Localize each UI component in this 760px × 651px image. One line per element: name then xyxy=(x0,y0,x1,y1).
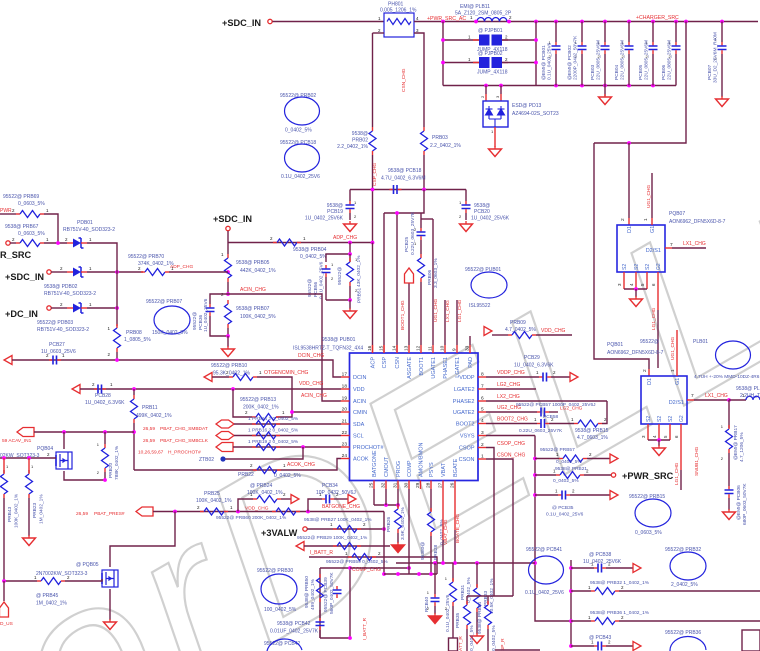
svg-text:95522@ PRB70: 95522@ PRB70 xyxy=(128,254,164,260)
label +PWR_SRC_AC xyxy=(427,16,466,22)
svg-text:LX2_CHG: LX2_CHG xyxy=(497,394,520,400)
svg-text:PRB11: PRB11 xyxy=(142,405,158,411)
resistor PRB59 xyxy=(345,551,381,561)
junction PRB11 xyxy=(132,430,136,434)
capacitor PCB43 xyxy=(591,640,611,651)
resistor PRB67 xyxy=(10,237,67,247)
resistor PRB17 xyxy=(726,425,733,486)
wire jumper right rail xyxy=(535,22,537,86)
label VBAT_CHG rot xyxy=(443,519,449,545)
testpoint ZTB02 xyxy=(199,456,226,463)
svg-text:VDD_CHG: VDD_CHG xyxy=(245,506,269,512)
wire bottom mid xyxy=(495,649,540,651)
wire ACIN div xyxy=(227,243,229,255)
ground PQB07 xyxy=(630,296,643,307)
svg-text:VDD_CHG: VDD_CHG xyxy=(541,328,566,334)
label PCB42 xyxy=(270,621,319,635)
wire divider bottom xyxy=(326,299,350,301)
svg-text:LG1_CHG: LG1_CHG xyxy=(457,299,463,322)
svg-text:PQB07: PQB07 xyxy=(669,211,685,217)
svg-text:AON6962_DFN5X6D-8-7: AON6962_DFN5X6D-8-7 xyxy=(607,350,664,356)
junction dots top rail xyxy=(441,20,724,24)
wire PQB07 pin7 xyxy=(665,242,706,248)
svg-text:VBAT_CHG: VBAT_CHG xyxy=(443,519,449,545)
svg-text:0_0603_5%: 0_0603_5% xyxy=(18,231,45,237)
label UG1_CHG 2 xyxy=(670,337,676,360)
wire H190 xyxy=(350,189,466,191)
ESD diode PD13 xyxy=(483,101,508,127)
svg-text:UG1_CHG: UG1_CHG xyxy=(646,185,652,208)
label PBAT_PRES xyxy=(76,511,125,517)
node SDC pin3 xyxy=(47,270,51,274)
svg-text:PCB34: PCB34 xyxy=(322,483,338,489)
resistor PRB22 xyxy=(250,463,286,474)
red texts SMB rows xyxy=(138,426,209,456)
label LG1_CHG 1 xyxy=(651,307,657,330)
svg-text:PRB03: PRB03 xyxy=(432,135,448,141)
label CSN_R rot xyxy=(458,636,464,651)
label EMI PLB11 xyxy=(455,4,512,17)
label LX1 rot xyxy=(445,300,451,322)
IC pin numbers xyxy=(342,345,484,488)
svg-text:ASGATE: ASGATE xyxy=(407,357,413,379)
resistor PRB33 xyxy=(474,563,481,634)
svg-text:PRB08: PRB08 xyxy=(126,330,142,336)
svg-text:95522@ PCB39: 95522@ PCB39 xyxy=(323,577,329,612)
label DCIN_CHG xyxy=(298,353,324,359)
svg-text:499_0402_1%: 499_0402_1% xyxy=(310,578,316,610)
svg-text:150K_0402_5%: 150K_0402_5% xyxy=(152,330,188,336)
svg-text:0.22U_0603_25V7K: 0.22U_0603_25V7K xyxy=(410,211,416,255)
wire gate stubs xyxy=(4,458,34,470)
svg-text:@ PJPB01: @ PJPB01 xyxy=(478,28,503,34)
svg-text:PCB03: PCB03 xyxy=(590,64,596,80)
resistor PH801 sense xyxy=(384,13,414,37)
capacitor PCB03 xyxy=(590,22,610,86)
label PRB26 xyxy=(386,506,406,540)
svg-text:OTGENCMIN_CHG: OTGENCMIN_CHG xyxy=(264,370,309,376)
svg-text:LX1_CHG: LX1_CHG xyxy=(445,300,451,322)
wire DCIN xyxy=(12,360,341,377)
svg-text:PCB07: PCB07 xyxy=(707,64,713,80)
junction VSYS col xyxy=(533,457,537,565)
svg-text:S2: S2 xyxy=(657,416,663,422)
net arrow PRB10 xyxy=(204,373,212,382)
junction diode3 xyxy=(115,306,119,310)
resistor PRB21 xyxy=(553,469,589,479)
svg-text:95522@ PRB29 100K_0402_1: 95522@ PRB29 100K_0402_1% xyxy=(297,535,368,541)
capacitor PCB42 xyxy=(316,610,325,638)
svg-text:200K_0402_1%: 200K_0402_1% xyxy=(243,405,279,411)
svg-text:CMOUT: CMOUT xyxy=(384,456,390,477)
node 3VALW xyxy=(303,527,307,531)
svg-text:9538@ PRB34: 9538@ PRB34 xyxy=(477,602,483,634)
box bottom right xyxy=(742,630,760,651)
label LX2_CHG xyxy=(497,394,520,400)
wire CSP column 2 xyxy=(372,155,374,242)
capacitor PCB06 snub xyxy=(725,486,734,510)
wire PRB21 out xyxy=(584,474,611,476)
wire PH801 pin2 xyxy=(373,32,385,34)
capacitor PCB06 xyxy=(661,22,681,86)
svg-text:100_0402_5%: 100_0402_5% xyxy=(264,607,297,613)
svg-text:1: 1 xyxy=(670,369,676,372)
junction div xyxy=(348,252,352,256)
svg-text:95522@ PRB13: 95522@ PRB13 xyxy=(240,397,276,403)
wire PDB02 out xyxy=(87,271,143,273)
svg-text:0_0402_5%: 0_0402_5% xyxy=(553,478,579,484)
svg-text:@ PCB43: @ PCB43 xyxy=(589,635,612,641)
label PJPB02 xyxy=(478,51,503,57)
ground PRB26 xyxy=(392,542,405,553)
label BGATE_CHG rot xyxy=(455,514,461,543)
svg-text:PCB06: PCB06 xyxy=(661,64,667,80)
svg-text:BATGONE: BATGONE xyxy=(372,450,378,477)
svg-text:95522@ PCB41: 95522@ PCB41 xyxy=(526,547,562,553)
svg-text:95522@: 95522@ xyxy=(640,339,659,345)
net arrow VDD_CHG row xyxy=(484,327,492,336)
label PRB05 xyxy=(236,260,276,274)
circle PRB30 xyxy=(257,568,297,613)
circle PRB36 c xyxy=(665,630,706,651)
svg-text:1U_0402_6.3V6K: 1U_0402_6.3V6K xyxy=(514,363,554,369)
svg-text:@EMI@ PCB02: @EMI@ PCB02 xyxy=(567,45,573,80)
label PRB14 xyxy=(248,416,299,422)
junction source xyxy=(103,478,107,482)
wire V384 down xyxy=(383,512,385,575)
junction CMIN xyxy=(290,410,294,414)
label PRB07 100K xyxy=(236,306,276,320)
svg-text:1U_0603_25V6: 1U_0603_25V6 xyxy=(41,349,76,355)
label ACAV xyxy=(2,438,32,444)
circle PCB41 xyxy=(525,547,564,596)
svg-text:9538@ PCB42: 9538@ PCB42 xyxy=(277,621,311,627)
svg-text:4.7U_0402_6.3V6M: 4.7U_0402_6.3V6M xyxy=(381,176,425,182)
resistor PRB14 xyxy=(252,421,280,428)
label ESD PD13 xyxy=(512,103,559,117)
label PCB34 xyxy=(316,483,356,496)
svg-text:PHASE2: PHASE2 xyxy=(453,399,475,405)
wire PRB32 row xyxy=(571,590,591,592)
svg-text:G1: G1 xyxy=(675,378,681,385)
junction H563 xyxy=(433,561,479,565)
net arrow PCB28 xyxy=(72,385,80,394)
wire PAD col xyxy=(469,336,471,345)
wire PCB43 row xyxy=(571,645,594,647)
svg-text:+PWR_SRC: +PWR_SRC xyxy=(622,471,674,481)
wire PDB03 out xyxy=(87,307,117,309)
wire CMIN2 xyxy=(292,411,341,413)
wire COMP up xyxy=(350,566,411,570)
wire PQB07 source join xyxy=(624,288,647,290)
svg-text:PWR: PWR xyxy=(0,208,12,214)
wire PRB36 row xyxy=(571,620,591,622)
capacitor PCB35 xyxy=(555,489,575,500)
wire PQB07 G2 down xyxy=(657,282,659,368)
label PRB31 xyxy=(445,576,472,611)
svg-text:PRB51: PRB51 xyxy=(357,287,363,303)
label UG2_CHG xyxy=(497,405,521,411)
svg-text:VDDP_CHG: VDDP_CHG xyxy=(497,370,525,376)
wire PRB59 row xyxy=(309,557,437,563)
svg-text:9538@ PRB27 100K_0402_1%: 9538@ PRB27 100K_0402_1% xyxy=(304,517,372,523)
junction 397-213 xyxy=(395,211,399,215)
svg-text:CSOP: CSOP xyxy=(459,446,475,452)
svg-text:PSYS: PSYS xyxy=(429,462,435,477)
bidir arrow SDA xyxy=(216,420,234,428)
ground PRB23 xyxy=(23,535,36,546)
label CSON_CHG xyxy=(497,453,525,459)
svg-text:2200P_0402_50V7K: 2200P_0402_50V7K xyxy=(573,35,579,80)
svg-text:100K_0402_1%: 100K_0402_1% xyxy=(196,498,232,504)
IC pin names xyxy=(353,357,475,477)
svg-text:7: 7 xyxy=(670,242,673,248)
svg-text:59 ACAV_IN1: 59 ACAV_IN1 xyxy=(2,438,32,444)
label PDB01 xyxy=(63,220,115,233)
svg-text:2_0402_5%: 2_0402_5% xyxy=(671,582,698,588)
label PCB43 xyxy=(589,635,612,641)
ground PQB05 xyxy=(104,619,117,630)
wire ACOK xyxy=(134,459,341,471)
svg-text:ADP_CHG: ADP_CHG xyxy=(333,235,357,241)
svg-text:G2: G2 xyxy=(656,263,662,270)
svg-text:0.1U_0402_25V6: 0.1U_0402_25V6 xyxy=(547,42,553,80)
wire PRB21 row xyxy=(535,474,556,476)
label PRB28 xyxy=(420,519,445,560)
junction dots bottom rail xyxy=(484,84,655,88)
wire CSN column xyxy=(414,33,424,127)
wire VBAT col xyxy=(442,489,444,563)
svg-text:9538@ PRB04: 9538@ PRB04 xyxy=(293,247,327,253)
label PCB27 xyxy=(41,342,76,355)
svg-text:BOOT1: BOOT1 xyxy=(419,357,425,376)
net arrow PRB57 xyxy=(610,454,618,463)
label PRB04 xyxy=(293,247,327,260)
wire PRB45 to gate xyxy=(65,579,102,581)
net arrow BATGONE xyxy=(348,495,356,504)
wire PH801 pin4 rail xyxy=(414,21,758,23)
svg-text:95380@: 95380@ xyxy=(420,542,426,560)
transistor PQB04 xyxy=(56,452,72,469)
svg-text:S2: S2 xyxy=(646,416,652,422)
label PRB23 xyxy=(32,494,45,524)
svg-text:S2: S2 xyxy=(622,264,628,270)
svg-text:9538@ PRB05: 9538@ PRB05 xyxy=(236,260,270,266)
junction H143 xyxy=(627,141,631,145)
wire BOOT1 col2 xyxy=(420,240,422,254)
label IBATT rot xyxy=(362,617,368,640)
svg-text:@ PRB24: @ PRB24 xyxy=(250,483,273,489)
wire BGATE col xyxy=(454,489,456,563)
ground PRB33 xyxy=(471,633,484,644)
svg-text:+SDC_IN: +SDC_IN xyxy=(222,18,261,28)
resistor PRB34 xyxy=(485,596,492,651)
IC pin stubs xyxy=(341,345,486,489)
svg-text:VSYS: VSYS xyxy=(460,434,475,440)
junctions H190 xyxy=(371,188,426,192)
svg-text:95522@ PRB69: 95522@ PRB69 xyxy=(3,194,39,200)
svg-text:@ PCB38: @ PCB38 xyxy=(589,552,612,558)
label PRB50 xyxy=(304,576,316,610)
wire CSP pin col xyxy=(383,213,385,353)
resistor PRB09 xyxy=(508,332,572,339)
jumper PJPB02 xyxy=(443,57,536,68)
resistor PRB32 xyxy=(588,585,624,595)
svg-text:PAD: PAD xyxy=(468,357,474,368)
svg-text:442K_0402_1%: 442K_0402_1% xyxy=(240,268,276,274)
junction PQB05 gate xyxy=(2,579,6,583)
wire COMP col xyxy=(408,489,410,574)
svg-text:PRB02: PRB02 xyxy=(352,138,368,144)
svg-text:2.2_0402_1%: 2.2_0402_1% xyxy=(337,144,368,150)
svg-text:PCB20: PCB20 xyxy=(474,209,490,215)
svg-text:I_BATT_R: I_BATT_R xyxy=(362,617,368,640)
junction dots jumper xyxy=(441,38,538,64)
label PCB39 xyxy=(323,572,335,614)
svg-text:ADP_CHG: ADP_CHG xyxy=(170,264,193,270)
wire CMIN xyxy=(257,377,292,417)
svg-text:499K_0402_1%: 499K_0402_1% xyxy=(136,413,172,419)
svg-text:560P_0402_50V7K: 560P_0402_50V7K xyxy=(329,572,335,614)
wire ESD pin3 xyxy=(500,86,502,102)
capacitor PCB02 xyxy=(567,22,587,86)
wire PDB01 out xyxy=(87,243,117,268)
svg-text:PBAT_PRES#: PBAT_PRES# xyxy=(94,511,125,517)
svg-text:AMON/BMON: AMON/BMON xyxy=(419,442,425,477)
wire VSYS col xyxy=(535,436,571,622)
resistor PRB25 xyxy=(197,505,233,515)
svg-text:BGATE: BGATE xyxy=(453,458,459,477)
svg-text:CSN: CSN xyxy=(395,357,401,369)
wire LGATE1 col xyxy=(456,300,458,345)
svg-text:95522@ PRB60 200K_0402_: 95522@ PRB60 200K_0402_1% xyxy=(216,515,287,521)
svg-text:AON6962_DFN5X6D-8-7: AON6962_DFN5X6D-8-7 xyxy=(669,219,726,225)
svg-text:PCB28: PCB28 xyxy=(95,393,111,399)
IC PUB01 ISL9538 xyxy=(350,353,479,481)
wire ZTB02 xyxy=(226,447,304,459)
svg-text:@EMI@ PCB06: @EMI@ PCB06 xyxy=(736,485,742,520)
ground PCB07 xyxy=(716,96,729,107)
net arrow PRB24 xyxy=(291,495,299,504)
svg-text:LG2_CHG: LG2_CHG xyxy=(497,382,520,388)
svg-text:1U_0402_25V6: 1U_0402_25V6 xyxy=(203,298,209,332)
svg-text:9538@ PRB07: 9538@ PRB07 xyxy=(236,306,270,312)
label +CHARGER_SRC xyxy=(636,15,679,21)
label PRB27 xyxy=(304,517,372,523)
wire H219 xyxy=(421,218,433,220)
label PCB25 xyxy=(404,211,416,255)
resistor PRB70 xyxy=(138,266,228,276)
svg-text:PROG: PROG xyxy=(396,461,402,477)
label PRB36 r xyxy=(590,610,650,616)
label PCB06 snub xyxy=(736,483,748,525)
junction ACIN xyxy=(226,292,230,296)
capacitor PCB27 xyxy=(46,353,65,365)
svg-text:95522@ PRB02: 95522@ PRB02 xyxy=(280,93,316,99)
wire PQB05 gate xyxy=(4,580,37,582)
svg-text:CSP_CHG: CSP_CHG xyxy=(372,163,378,186)
label PRB03 xyxy=(430,135,461,149)
resistor PRB11 xyxy=(131,389,138,470)
label PRB15 boot xyxy=(519,428,609,441)
svg-text:9538@ PRB36 1_0402_1%: 9538@ PRB36 1_0402_1% xyxy=(590,610,650,616)
resistor PRB57 xyxy=(556,452,592,462)
bidir arrow SCL xyxy=(216,432,234,440)
capacitor PCB36 xyxy=(206,294,229,336)
svg-text:D2/S1: D2/S1 xyxy=(646,248,661,254)
wire ACIN gnd xyxy=(227,336,229,347)
svg-text:ISL95522: ISL95522 xyxy=(469,303,491,309)
wire PCB34 arrow xyxy=(334,498,348,500)
label PRB16 xyxy=(248,428,299,434)
pin numbers PH801 xyxy=(378,16,419,33)
ground PCB19 xyxy=(344,221,357,232)
svg-text:0_0402_5%: 0_0402_5% xyxy=(556,459,582,465)
net arrow up left xyxy=(0,602,9,617)
svg-text:1U_0402_25V6K: 1U_0402_25V6K xyxy=(583,559,622,565)
svg-text:SCL: SCL xyxy=(353,434,364,440)
svg-text:ACOK: ACOK xyxy=(353,457,369,463)
svg-text:+CHARGER_SRC: +CHARGER_SRC xyxy=(636,15,679,21)
svg-text:0.1U_0402_25V6: 0.1U_0402_25V6 xyxy=(281,174,320,180)
svg-text:9538@ PCB18: 9538@ PCB18 xyxy=(388,168,422,174)
svg-text:22U_0805_25V6M: 22U_0805_25V6M xyxy=(667,40,673,80)
node SDC pin2 xyxy=(226,226,230,230)
net arrow ASGATE xyxy=(405,268,414,283)
net arrow DCIN xyxy=(4,356,12,365)
label LG2_CHG xyxy=(497,382,520,388)
svg-text:@EMI@ PRB17: @EMI@ PRB17 xyxy=(733,425,739,460)
PQB01 bottom stubs xyxy=(641,424,681,440)
label PRB34 xyxy=(477,602,497,651)
label PRB09 xyxy=(505,320,566,334)
svg-text:LGATE2: LGATE2 xyxy=(454,387,475,393)
svg-text:0_0402_5%: 0_0402_5% xyxy=(285,128,312,134)
COMP box xyxy=(320,568,350,638)
svg-text:26,59: 26,59 xyxy=(76,511,88,517)
wire VDD_CHG row xyxy=(492,334,508,336)
wire 3VALW xyxy=(307,528,384,530)
svg-text:95522@ PRB10: 95522@ PRB10 xyxy=(211,363,247,369)
svg-text:22U_0805_25V6M: 22U_0805_25V6M xyxy=(644,40,650,80)
label +SDC_IN 3 xyxy=(5,272,44,282)
svg-text:RB751V-40_SOD323-2: RB751V-40_SOD323-2 xyxy=(37,327,89,333)
svg-text:LX1_CHG: LX1_CHG xyxy=(705,393,728,399)
node PRB67 pin xyxy=(6,241,10,245)
label ADP_CHG xyxy=(333,235,357,241)
resistor PRB03 2.2 xyxy=(421,127,428,155)
capacitor PCB07 xyxy=(707,22,727,98)
node +SDC_IN pin xyxy=(268,19,272,23)
capacitor PCB40 xyxy=(431,563,440,614)
wire CSON xyxy=(486,459,513,596)
svg-text:ISL9538HRTZ-T_TQFN32_4X4: ISL9538HRTZ-T_TQFN32_4X4 xyxy=(293,346,363,352)
svg-text:0_0402_5%: 0_0402_5% xyxy=(300,254,327,260)
svg-text:PCB29: PCB29 xyxy=(524,355,540,361)
wire snub xyxy=(728,400,730,428)
diode PDB01 xyxy=(65,237,92,248)
svg-text:0.22U_0603_25V7K: 0.22U_0603_25V7K xyxy=(519,428,563,434)
label PRB02 res xyxy=(337,131,368,150)
wire CMOUT col xyxy=(385,489,387,505)
svg-text:EMI@ PLB11: EMI@ PLB11 xyxy=(460,4,490,10)
svg-text:SDA: SDA xyxy=(353,422,365,428)
wire CSOP xyxy=(486,448,494,597)
svg-text:BATGONE_CHG: BATGONE_CHG xyxy=(322,504,360,510)
svg-text:LX1_CHG: LX1_CHG xyxy=(683,241,706,247)
svg-text:DCIN_CHG: DCIN_CHG xyxy=(298,353,324,359)
junction gate xyxy=(2,456,31,460)
